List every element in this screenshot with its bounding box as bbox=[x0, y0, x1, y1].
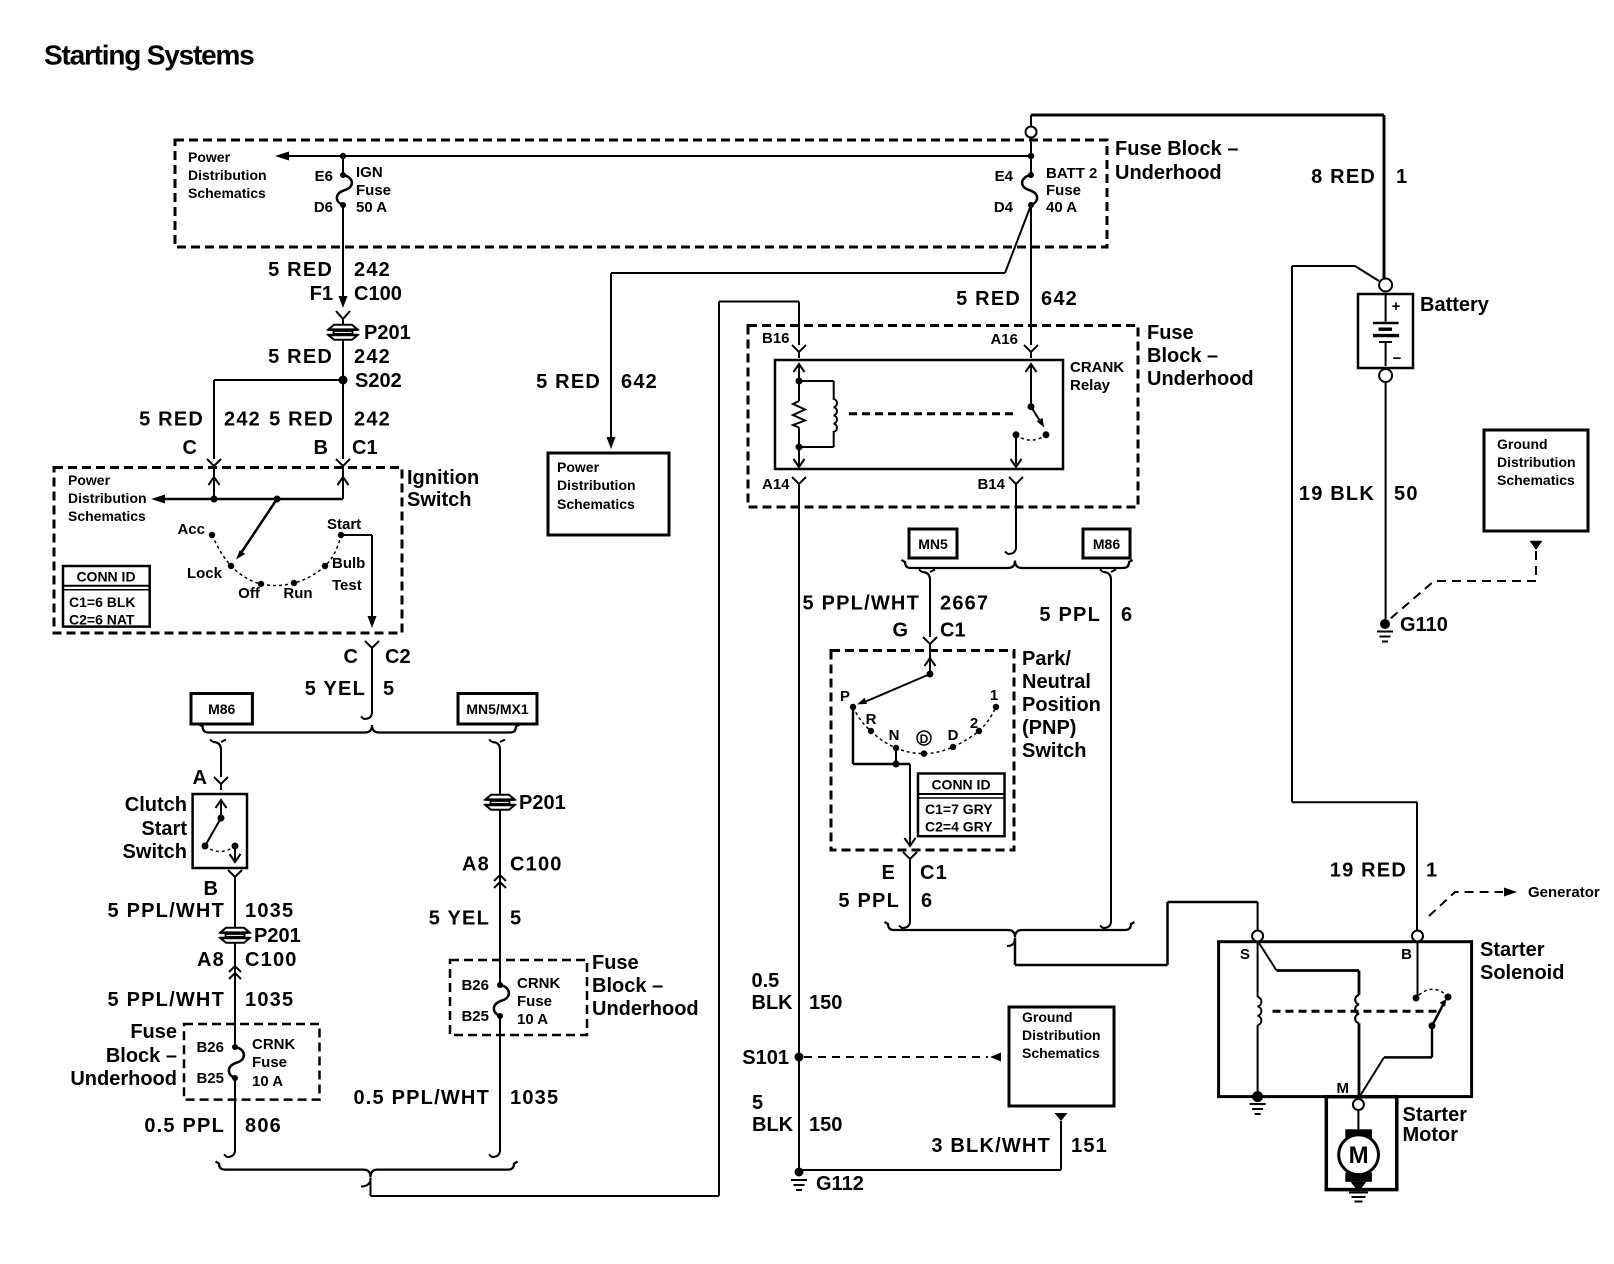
svg-text:1035: 1035 bbox=[510, 1087, 559, 1109]
svg-text:Fuse: Fuse bbox=[592, 952, 639, 974]
svg-text:S101: S101 bbox=[742, 1047, 789, 1069]
svg-text:C1: C1 bbox=[352, 437, 378, 459]
svg-text:5: 5 bbox=[510, 908, 522, 930]
svg-text:A8: A8 bbox=[197, 949, 225, 971]
svg-text:Acc: Acc bbox=[177, 521, 205, 538]
svg-text:C2=6 NAT: C2=6 NAT bbox=[69, 612, 135, 628]
svg-text:B: B bbox=[1401, 946, 1412, 963]
svg-text:(PNP): (PNP) bbox=[1022, 717, 1076, 739]
svg-text:C1=7 GRY: C1=7 GRY bbox=[925, 801, 993, 817]
svg-text:M: M bbox=[1337, 1080, 1350, 1097]
svg-text:Underhood: Underhood bbox=[1147, 368, 1254, 390]
svg-text:1: 1 bbox=[1396, 166, 1408, 188]
svg-text:D6: D6 bbox=[314, 199, 333, 216]
svg-text:A16: A16 bbox=[990, 331, 1018, 348]
svg-text:Run: Run bbox=[283, 585, 312, 602]
svg-text:Switch: Switch bbox=[123, 841, 187, 863]
svg-text:Fuse: Fuse bbox=[1147, 322, 1194, 344]
svg-text:242: 242 bbox=[224, 409, 261, 431]
svg-text:Solenoid: Solenoid bbox=[1480, 962, 1564, 984]
svg-text:Distribution: Distribution bbox=[68, 490, 147, 506]
svg-text:242: 242 bbox=[354, 259, 391, 281]
svg-text:Starter: Starter bbox=[1480, 939, 1545, 961]
svg-text:Fuse: Fuse bbox=[1046, 182, 1081, 199]
svg-text:Power: Power bbox=[557, 459, 600, 475]
svg-text:C100: C100 bbox=[510, 854, 563, 876]
svg-text:IGN: IGN bbox=[356, 164, 383, 181]
svg-text:C: C bbox=[183, 437, 197, 459]
svg-text:Schematics: Schematics bbox=[557, 496, 635, 512]
svg-text:242: 242 bbox=[354, 409, 391, 431]
svg-text:D4: D4 bbox=[994, 199, 1014, 216]
svg-text:Distribution: Distribution bbox=[1497, 454, 1576, 470]
svg-text:151: 151 bbox=[1071, 1135, 1108, 1157]
svg-text:P201: P201 bbox=[254, 925, 301, 947]
svg-text:−: − bbox=[1393, 350, 1402, 367]
svg-text:C1: C1 bbox=[920, 862, 948, 884]
svg-text:Switch: Switch bbox=[407, 489, 471, 511]
svg-text:Start: Start bbox=[327, 516, 361, 533]
svg-text:Starting Systems: Starting Systems bbox=[44, 40, 254, 71]
svg-text:5 RED: 5 RED bbox=[268, 259, 333, 281]
svg-text:Clutch: Clutch bbox=[125, 794, 187, 816]
svg-text:B25: B25 bbox=[461, 1008, 489, 1025]
svg-text:Block –: Block – bbox=[592, 975, 663, 997]
svg-text:50 A: 50 A bbox=[356, 199, 387, 216]
svg-text:5 PPL: 5 PPL bbox=[1039, 604, 1101, 626]
svg-text:6: 6 bbox=[921, 890, 933, 912]
svg-text:C1: C1 bbox=[940, 620, 966, 642]
svg-text:E6: E6 bbox=[315, 168, 333, 185]
svg-text:Fuse: Fuse bbox=[252, 1054, 287, 1071]
svg-text:Position: Position bbox=[1022, 694, 1101, 716]
svg-text:F1: F1 bbox=[310, 283, 333, 305]
svg-text:Schematics: Schematics bbox=[188, 185, 266, 201]
svg-text:Battery: Battery bbox=[1420, 294, 1490, 316]
svg-text:Test: Test bbox=[332, 577, 362, 594]
svg-text:0.5: 0.5 bbox=[752, 970, 780, 992]
svg-text:E: E bbox=[881, 862, 896, 884]
svg-text:Fuse: Fuse bbox=[130, 1021, 177, 1043]
svg-text:5 PPL/WHT: 5 PPL/WHT bbox=[108, 900, 225, 922]
svg-text:C: C bbox=[344, 646, 358, 668]
svg-text:0.5 PPL/WHT: 0.5 PPL/WHT bbox=[353, 1087, 490, 1109]
svg-text:150: 150 bbox=[809, 1114, 842, 1136]
svg-text:Fuse Block –: Fuse Block – bbox=[1115, 138, 1238, 160]
svg-text:C100: C100 bbox=[354, 283, 402, 305]
svg-text:C100: C100 bbox=[245, 949, 298, 971]
svg-text:19 BLK: 19 BLK bbox=[1299, 483, 1375, 505]
svg-text:1: 1 bbox=[990, 687, 998, 704]
svg-text:19 RED: 19 RED bbox=[1330, 860, 1407, 882]
svg-text:10 A: 10 A bbox=[252, 1073, 283, 1090]
svg-text:BLK: BLK bbox=[752, 992, 794, 1014]
svg-text:P: P bbox=[840, 688, 850, 705]
svg-text:5 RED: 5 RED bbox=[956, 288, 1021, 310]
svg-text:G: G bbox=[892, 620, 908, 642]
svg-text:Motor: Motor bbox=[1403, 1124, 1459, 1146]
svg-text:Fuse: Fuse bbox=[517, 993, 552, 1010]
svg-text:Ignition: Ignition bbox=[407, 467, 479, 489]
svg-text:A8: A8 bbox=[462, 854, 490, 876]
svg-text:Ground: Ground bbox=[1022, 1009, 1073, 1025]
svg-text:M86: M86 bbox=[1093, 536, 1120, 552]
svg-text:150: 150 bbox=[809, 992, 842, 1014]
svg-text:Distribution: Distribution bbox=[188, 167, 267, 183]
svg-text:B16: B16 bbox=[762, 330, 790, 347]
svg-text:10 A: 10 A bbox=[517, 1011, 548, 1028]
svg-text:Starter: Starter bbox=[1403, 1104, 1468, 1126]
svg-text:Ground: Ground bbox=[1497, 436, 1548, 452]
svg-text:P201: P201 bbox=[519, 792, 566, 814]
svg-text:G110: G110 bbox=[1400, 614, 1448, 636]
svg-text:D: D bbox=[920, 732, 929, 746]
svg-text:642: 642 bbox=[621, 371, 658, 393]
svg-text:806: 806 bbox=[245, 1115, 282, 1137]
svg-text:A: A bbox=[193, 767, 207, 789]
svg-text:5 PPL/WHT: 5 PPL/WHT bbox=[803, 593, 920, 615]
svg-text:5 PPL/WHT: 5 PPL/WHT bbox=[108, 989, 225, 1011]
svg-text:CONN ID: CONN ID bbox=[931, 777, 990, 793]
svg-text:BLK: BLK bbox=[752, 1114, 794, 1136]
svg-text:5 RED: 5 RED bbox=[268, 346, 333, 368]
svg-text:3 BLK/WHT: 3 BLK/WHT bbox=[931, 1135, 1051, 1157]
svg-text:Schematics: Schematics bbox=[68, 508, 146, 524]
svg-text:Block –: Block – bbox=[106, 1045, 177, 1067]
svg-text:M86: M86 bbox=[208, 701, 235, 717]
svg-text:M: M bbox=[1349, 1142, 1369, 1169]
svg-text:Relay: Relay bbox=[1070, 377, 1111, 394]
svg-text:G112: G112 bbox=[816, 1173, 864, 1195]
svg-text:40 A: 40 A bbox=[1046, 199, 1077, 216]
svg-text:BATT 2: BATT 2 bbox=[1046, 165, 1097, 182]
svg-text:N: N bbox=[889, 727, 900, 744]
svg-text:5 RED: 5 RED bbox=[269, 409, 334, 431]
svg-text:2: 2 bbox=[970, 715, 978, 732]
svg-text:Park/: Park/ bbox=[1022, 648, 1071, 670]
svg-text:E4: E4 bbox=[995, 168, 1014, 185]
svg-text:Switch: Switch bbox=[1022, 740, 1086, 762]
svg-text:1035: 1035 bbox=[245, 989, 294, 1011]
svg-text:R: R bbox=[866, 711, 877, 728]
svg-text:Underhood: Underhood bbox=[592, 998, 699, 1020]
svg-text:B25: B25 bbox=[196, 1070, 224, 1087]
svg-text:5 YEL: 5 YEL bbox=[429, 908, 490, 930]
svg-text:5 PPL: 5 PPL bbox=[838, 890, 900, 912]
svg-text:1035: 1035 bbox=[245, 900, 294, 922]
svg-text:Underhood: Underhood bbox=[70, 1068, 177, 1090]
svg-text:Distribution: Distribution bbox=[557, 477, 636, 493]
svg-text:6: 6 bbox=[1121, 604, 1133, 626]
svg-text:MN5: MN5 bbox=[918, 536, 948, 552]
svg-text:B26: B26 bbox=[461, 977, 489, 994]
svg-text:2667: 2667 bbox=[940, 593, 989, 615]
svg-text:0.5 PPL: 0.5 PPL bbox=[144, 1115, 225, 1137]
svg-text:242: 242 bbox=[354, 346, 391, 368]
svg-text:642: 642 bbox=[1041, 288, 1078, 310]
svg-text:S: S bbox=[1240, 946, 1250, 963]
svg-text:A14: A14 bbox=[762, 476, 790, 493]
svg-text:CONN ID: CONN ID bbox=[76, 569, 135, 585]
svg-text:8 RED: 8 RED bbox=[1311, 166, 1376, 188]
svg-text:CRNK: CRNK bbox=[252, 1036, 295, 1053]
svg-text:Bulb: Bulb bbox=[332, 555, 365, 572]
svg-text:Underhood: Underhood bbox=[1115, 162, 1222, 184]
svg-text:Distribution: Distribution bbox=[1022, 1027, 1101, 1043]
svg-text:C2: C2 bbox=[385, 646, 411, 668]
svg-text:D: D bbox=[948, 727, 959, 744]
svg-text:Lock: Lock bbox=[187, 565, 223, 582]
svg-text:Power: Power bbox=[68, 472, 111, 488]
svg-text:Fuse: Fuse bbox=[356, 182, 391, 199]
svg-text:B: B bbox=[204, 878, 218, 900]
svg-text:Block –: Block – bbox=[1147, 345, 1218, 367]
svg-text:Generator: Generator bbox=[1528, 884, 1600, 901]
svg-text:5: 5 bbox=[752, 1092, 763, 1114]
svg-text:Neutral: Neutral bbox=[1022, 671, 1091, 693]
svg-text:Schematics: Schematics bbox=[1497, 472, 1575, 488]
svg-text:50: 50 bbox=[1394, 483, 1419, 505]
svg-text:B14: B14 bbox=[977, 476, 1005, 493]
svg-text:+: + bbox=[1392, 298, 1401, 315]
svg-text:5 RED: 5 RED bbox=[536, 371, 601, 393]
svg-text:Power: Power bbox=[188, 149, 231, 165]
svg-text:Start: Start bbox=[141, 818, 187, 840]
svg-text:5 RED: 5 RED bbox=[139, 409, 204, 431]
svg-text:CRANK: CRANK bbox=[1070, 359, 1124, 376]
svg-text:Schematics: Schematics bbox=[1022, 1045, 1100, 1061]
svg-text:C1=6 BLK: C1=6 BLK bbox=[69, 594, 136, 610]
svg-text:MN5/MX1: MN5/MX1 bbox=[466, 701, 528, 717]
svg-text:1: 1 bbox=[1426, 860, 1438, 882]
svg-text:5 YEL: 5 YEL bbox=[305, 678, 366, 700]
svg-text:P201: P201 bbox=[364, 322, 411, 344]
svg-text:5: 5 bbox=[383, 678, 395, 700]
svg-text:C2=4 GRY: C2=4 GRY bbox=[925, 819, 993, 835]
svg-text:B: B bbox=[314, 437, 328, 459]
svg-text:S202: S202 bbox=[355, 370, 402, 392]
svg-text:CRNK: CRNK bbox=[517, 975, 560, 992]
svg-text:Off: Off bbox=[238, 585, 261, 602]
svg-text:B26: B26 bbox=[196, 1039, 224, 1056]
